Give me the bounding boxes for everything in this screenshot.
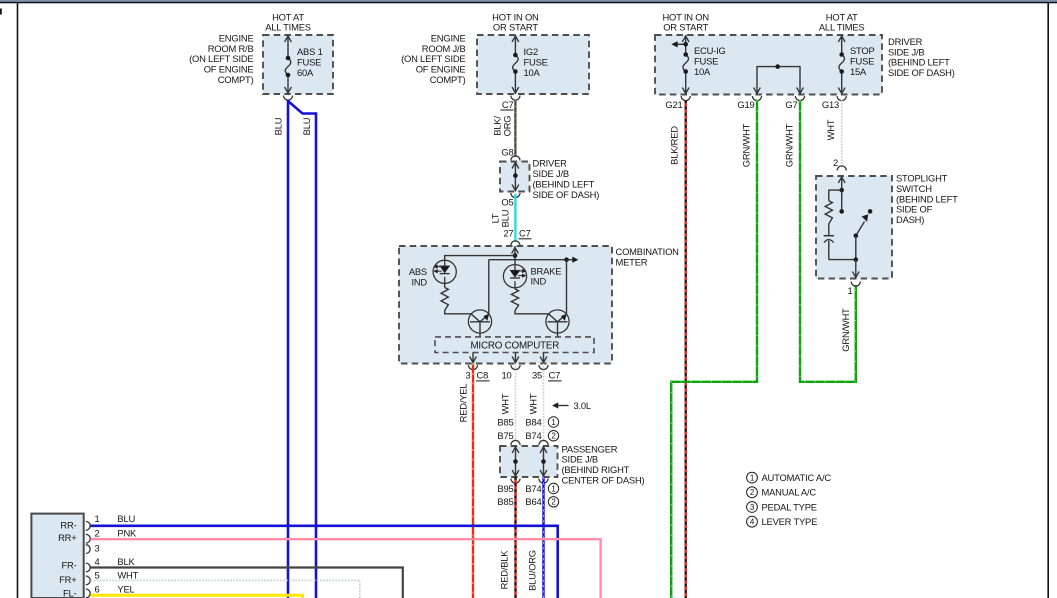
svg-text:3: 3 bbox=[465, 370, 470, 381]
note mark 2 bbox=[548, 431, 558, 441]
svg-text:(BEHIND LEFT: (BEHIND LEFT bbox=[533, 178, 595, 189]
wire WHT (pin 5) bbox=[91, 580, 360, 598]
entry wire pin 2 bbox=[841, 176, 843, 190]
junction block: DRIVER SIDE J/B bbox=[655, 35, 882, 95]
svg-text:B95: B95 bbox=[497, 483, 513, 494]
note 4 LEVER TYPE bbox=[747, 516, 758, 527]
svg-text:5: 5 bbox=[95, 570, 100, 581]
svg-text:MANUAL A/C: MANUAL A/C bbox=[762, 487, 817, 498]
pin 4 connector arc bbox=[86, 563, 90, 572]
svg-text:SIDE OF: SIDE OF bbox=[896, 204, 933, 215]
svg-text:1: 1 bbox=[847, 285, 852, 296]
svg-text:SIDE J/B: SIDE J/B bbox=[562, 454, 598, 465]
svg-text:ABS: ABS bbox=[409, 266, 427, 277]
svg-text:C7: C7 bbox=[502, 99, 514, 110]
svg-text:COMPT): COMPT) bbox=[430, 74, 466, 85]
MICRO COMPUTER bbox=[435, 337, 594, 353]
connector arc above combination meter bbox=[511, 241, 520, 246]
svg-text:BLU: BLU bbox=[301, 117, 312, 135]
resistor (ABS lamp) bbox=[444, 283, 446, 287]
svg-text:FUSE: FUSE bbox=[524, 57, 548, 68]
svg-text:G19: G19 bbox=[737, 99, 754, 110]
pin 2 connector arc bbox=[86, 534, 90, 543]
wire BLK (pin 4) bbox=[91, 568, 403, 598]
svg-text:BLK: BLK bbox=[117, 556, 135, 567]
svg-text:FL-: FL- bbox=[63, 588, 77, 598]
svg-text:BLU/ORG: BLU/ORG bbox=[527, 550, 538, 591]
junction block: DRIVER SIDE J/B (small) bbox=[500, 162, 530, 192]
svg-text:OR START: OR START bbox=[663, 22, 708, 33]
svg-text:FUSE: FUSE bbox=[850, 56, 874, 67]
svg-text:COMBINATION: COMBINATION bbox=[616, 246, 679, 257]
window edge tick bbox=[0, 9, 2, 15]
svg-text:YEL: YEL bbox=[117, 584, 134, 595]
svg-text:10A: 10A bbox=[694, 66, 711, 77]
svg-text:FR-: FR- bbox=[61, 560, 76, 571]
svg-text:FUSE: FUSE bbox=[297, 57, 321, 68]
svg-text:2: 2 bbox=[95, 528, 100, 539]
svg-text:RR+: RR+ bbox=[58, 532, 77, 543]
fuse IG2 10A bbox=[514, 35, 516, 55]
svg-text:DRIVER: DRIVER bbox=[533, 157, 568, 168]
svg-text:ABS 1: ABS 1 bbox=[297, 46, 323, 57]
svg-text:BLK/RED: BLK/RED bbox=[669, 126, 680, 165]
right page border bbox=[1047, 3, 1049, 598]
note mark 1 bbox=[548, 483, 558, 493]
svg-text:WHT: WHT bbox=[825, 119, 836, 140]
wire GRN/WHT (G7 to stoplight switch) bbox=[800, 100, 856, 382]
svg-text:6: 6 bbox=[95, 584, 100, 595]
entry wire pin 27 bbox=[514, 246, 516, 265]
svg-text:BLU: BLU bbox=[117, 513, 135, 524]
svg-text:60A: 60A bbox=[297, 67, 314, 78]
switch contact (left, from pin 2) bbox=[841, 190, 843, 211]
svg-text:PNK: PNK bbox=[117, 528, 137, 539]
svg-text:FR+: FR+ bbox=[59, 574, 77, 585]
svg-text:FUSE: FUSE bbox=[694, 56, 718, 67]
svg-text:LEVER TYPE: LEVER TYPE bbox=[762, 516, 818, 527]
top window border bar bbox=[0, 0, 1057, 2]
svg-text:G8: G8 bbox=[501, 147, 513, 158]
note arrow 3.0L bbox=[557, 405, 569, 407]
svg-text:BLU: BLU bbox=[273, 117, 284, 135]
transistor Q1 (ABS) bbox=[468, 310, 491, 333]
svg-text:IG2: IG2 bbox=[524, 46, 539, 57]
lamp BRAKE IND bbox=[503, 265, 526, 288]
svg-text:WHT: WHT bbox=[528, 393, 539, 414]
connector arc below stoplight switch bbox=[851, 282, 860, 287]
svg-text:CENTER OF DASH): CENTER OF DASH) bbox=[562, 475, 645, 486]
wire GRN/WHT (G19) bbox=[671, 100, 757, 598]
svg-text:PASSENGER: PASSENGER bbox=[562, 443, 618, 454]
svg-text:RED/BLK: RED/BLK bbox=[499, 550, 510, 590]
svg-text:SIDE OF DASH): SIDE OF DASH) bbox=[533, 189, 600, 200]
svg-text:27: 27 bbox=[503, 228, 513, 239]
svg-text:SWITCH: SWITCH bbox=[896, 183, 932, 194]
RC branch: resistor bbox=[829, 190, 842, 201]
wire BLU (left branch, to ABS actuator) bbox=[287, 100, 290, 598]
wire RED/BLK bbox=[514, 477, 516, 598]
svg-text:COMPT): COMPT) bbox=[218, 74, 254, 85]
svg-text:C7: C7 bbox=[519, 228, 531, 239]
connector arcs above passenger J/B bbox=[511, 440, 520, 445]
svg-text:B84: B84 bbox=[525, 417, 541, 428]
fuse ECU-IG 10A bbox=[685, 35, 687, 55]
svg-text:STOPLIGHT: STOPLIGHT bbox=[896, 173, 948, 184]
svg-text:B74: B74 bbox=[525, 483, 541, 494]
svg-text:ORG: ORG bbox=[502, 116, 513, 137]
note 2 MANUAL A/C bbox=[747, 487, 758, 498]
svg-text:B85: B85 bbox=[497, 496, 513, 507]
svg-text:35: 35 bbox=[532, 370, 542, 381]
connector arcs below combination meter bbox=[468, 365, 477, 370]
fuse box: ENGINE ROOM J/B bbox=[477, 35, 589, 94]
internal link G19-G7 bbox=[757, 67, 800, 95]
wire YEL (pin 6) bbox=[91, 595, 303, 598]
svg-text:GRN/WHT: GRN/WHT bbox=[741, 123, 752, 167]
connector arc above stoplight switch bbox=[837, 166, 846, 171]
switch contact (right) bbox=[868, 209, 873, 214]
transistor Q2 (BRAKE) bbox=[546, 310, 569, 333]
svg-text:(BEHIND LEFT: (BEHIND LEFT bbox=[896, 193, 958, 204]
pin 1 connector arc bbox=[86, 521, 90, 530]
svg-text:AUTOMATIC A/C: AUTOMATIC A/C bbox=[762, 472, 832, 483]
note mark 1 bbox=[548, 417, 558, 427]
svg-text:3: 3 bbox=[95, 542, 100, 553]
svg-text:STOP: STOP bbox=[850, 45, 875, 56]
svg-text:B75: B75 bbox=[497, 430, 513, 441]
svg-text:4: 4 bbox=[95, 556, 100, 567]
resistor (BRAKE lamp) bbox=[514, 288, 516, 289]
wire RED/YEL bbox=[472, 364, 474, 598]
wire BLU (right branch) bbox=[288, 101, 316, 598]
svg-text:B85: B85 bbox=[497, 417, 513, 428]
note 1 AUTOMATIC A/C bbox=[747, 472, 758, 483]
svg-text:G13: G13 bbox=[822, 99, 839, 110]
svg-text:MICRO COMPUTER: MICRO COMPUTER bbox=[470, 340, 559, 351]
svg-text:B74: B74 bbox=[525, 430, 541, 441]
pin 3 connector arc bbox=[86, 545, 90, 554]
output pins of micro computer bbox=[472, 353, 474, 363]
connector arc below driver side J/B (small) bbox=[511, 193, 520, 198]
wire BLK/ORG bbox=[514, 100, 516, 157]
switch box: STOPLIGHT SWITCH bbox=[816, 176, 892, 279]
svg-text:G21: G21 bbox=[665, 99, 682, 110]
fuse STOP 15A bbox=[841, 35, 843, 55]
svg-text:2: 2 bbox=[833, 157, 838, 168]
wire PNK (pin 2) bbox=[91, 539, 601, 598]
svg-text:SIDE J/B: SIDE J/B bbox=[533, 168, 569, 179]
svg-text:DASH): DASH) bbox=[896, 214, 924, 225]
svg-text:(BEHIND RIGHT: (BEHIND RIGHT bbox=[562, 464, 630, 475]
svg-text:B64: B64 bbox=[525, 496, 541, 507]
note mark 2 bbox=[548, 497, 558, 507]
branch arrow left from ECU-IG fuse bbox=[677, 43, 686, 45]
svg-text:SIDE OF DASH): SIDE OF DASH) bbox=[888, 67, 955, 78]
wire LT BLU bbox=[514, 194, 516, 242]
svg-text:ECU-IG: ECU-IG bbox=[694, 45, 726, 56]
connector arc below ABS1 fuse box bbox=[283, 96, 292, 101]
svg-text:10: 10 bbox=[501, 370, 511, 381]
wire BLU (pin 1) bbox=[91, 526, 558, 598]
svg-text:15A: 15A bbox=[850, 66, 867, 77]
wire to ABS IND bbox=[445, 256, 515, 261]
svg-text:WHT: WHT bbox=[500, 393, 511, 414]
svg-text:C7: C7 bbox=[549, 370, 561, 381]
svg-text:BRAKE: BRAKE bbox=[531, 265, 562, 276]
svg-text:GRN/WHT: GRN/WHT bbox=[840, 308, 851, 352]
svg-text:G7: G7 bbox=[785, 99, 797, 110]
svg-text:IND: IND bbox=[531, 276, 547, 287]
svg-text:RED/YEL: RED/YEL bbox=[458, 384, 469, 423]
svg-text:OR START: OR START bbox=[493, 22, 538, 33]
pin 6 connector arc bbox=[86, 589, 90, 598]
connector: ABS actuator pins bbox=[31, 514, 83, 598]
connector arcs below passenger J/B bbox=[511, 479, 520, 484]
switch pivot to pin 1 bbox=[855, 236, 857, 260]
left page border bbox=[17, 3, 19, 598]
svg-text:3.0L: 3.0L bbox=[574, 400, 591, 411]
svg-text:10A: 10A bbox=[524, 67, 541, 78]
fuse box: ENGINE ROOM R/B bbox=[263, 35, 333, 94]
junction block: PASSENGER SIDE J/B bbox=[500, 446, 558, 477]
pin 5 connector arc bbox=[86, 576, 90, 585]
ECU: COMBINATION METER bbox=[399, 246, 612, 364]
svg-text:O5: O5 bbox=[501, 196, 513, 207]
svg-text:ALL TIMES: ALL TIMES bbox=[819, 22, 865, 33]
svg-text:GRN/WHT: GRN/WHT bbox=[784, 123, 795, 167]
connector arcs below driver J/B bbox=[681, 96, 690, 101]
svg-text:C8: C8 bbox=[477, 370, 489, 381]
svg-text:IND: IND bbox=[411, 276, 427, 287]
svg-text:PEDAL TYPE: PEDAL TYPE bbox=[762, 501, 817, 512]
svg-text:1: 1 bbox=[95, 513, 100, 524]
svg-text:WHT: WHT bbox=[117, 570, 138, 581]
wire WHT (G13) bbox=[841, 100, 843, 167]
collector bus wire bbox=[489, 259, 573, 261]
svg-text:BLU: BLU bbox=[500, 209, 511, 227]
note 3 PEDAL TYPE bbox=[747, 502, 758, 513]
svg-text:METER: METER bbox=[616, 256, 648, 267]
wire BLK/RED (G21) bbox=[685, 100, 687, 598]
connector arc below IG2 fuse box bbox=[511, 96, 520, 101]
connector arc above driver side J/B (small) bbox=[511, 156, 520, 161]
wire BLU/ORG bbox=[542, 477, 544, 598]
fuse ABS 1 60A bbox=[287, 35, 289, 58]
capacitor bbox=[824, 235, 834, 237]
switch arm SW1 bbox=[856, 222, 865, 236]
lamp ABS IND bbox=[433, 260, 456, 283]
svg-text:ALL TIMES: ALL TIMES bbox=[265, 22, 311, 33]
wire WHT (pin 35) bbox=[543, 364, 545, 442]
wire WHT (pin 10) bbox=[515, 364, 517, 442]
svg-text:RR-: RR- bbox=[60, 519, 76, 530]
